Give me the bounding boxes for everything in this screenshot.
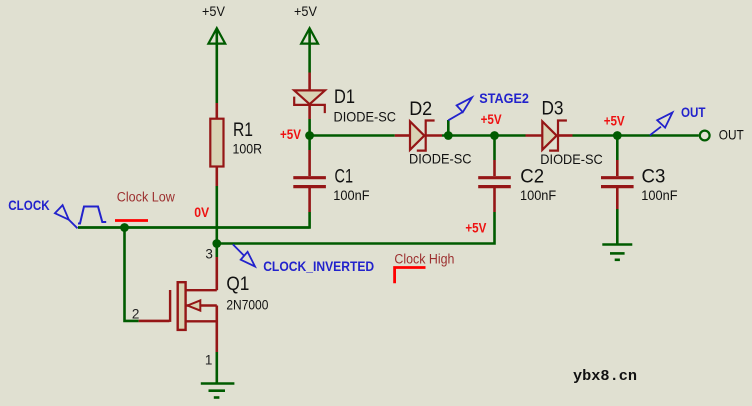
diode D3 body <box>542 121 556 149</box>
wire CLOCK horizontal <box>78 226 310 229</box>
diode D1 schottky cathode <box>294 97 325 114</box>
diode D2 schottky cathode <box>417 121 435 151</box>
wire source to ground <box>216 352 219 384</box>
capacitor C2 bottom pin <box>493 188 496 212</box>
wire D2 to stage2 node <box>442 134 495 137</box>
node CLOCK junction <box>120 223 129 232</box>
pin D2 anode <box>395 134 411 137</box>
capacitor C3 top pin wire <box>616 136 619 161</box>
node C3 top junction <box>613 131 622 140</box>
wire CLOCK down to gate <box>125 228 139 321</box>
resistor R1 <box>210 119 223 167</box>
Q1 source lead <box>186 320 217 322</box>
power +5V rail 2 arrow symbol <box>301 28 318 43</box>
capacitor C3 top pin <box>616 160 619 176</box>
svg-text:2: 2 <box>132 306 140 321</box>
svg-text:D2: D2 <box>409 99 432 120</box>
capacitor C2 top pin wire <box>493 136 496 161</box>
node STAGE2 junction <box>444 131 453 140</box>
svg-text:100nF: 100nF <box>641 187 677 203</box>
svg-text:+5V: +5V <box>280 126 302 142</box>
capacitor C2 top pin <box>493 160 496 176</box>
Q1 drain lead <box>186 289 217 291</box>
capacitor C1 top pin wire <box>308 136 311 151</box>
capacitor C3 bottom pin <box>616 188 619 209</box>
svg-text:+5V: +5V <box>481 111 503 127</box>
svg-text:ybx8.cn: ybx8.cn <box>573 368 637 385</box>
transistor Q1 <box>170 282 217 352</box>
svg-text:+5V: +5V <box>604 112 626 128</box>
ground under Q1 <box>201 384 235 398</box>
svg-text:3: 3 <box>205 246 213 261</box>
svg-text:+5V: +5V <box>294 4 317 19</box>
capacitor C2 plates <box>478 176 511 179</box>
pin R1 top <box>216 103 219 120</box>
wire node to D3 <box>495 134 526 137</box>
svg-text:Q1: Q1 <box>226 274 249 295</box>
ground under C3 <box>602 245 632 260</box>
waveform pulse symbol <box>78 207 106 224</box>
svg-text:0V: 0V <box>194 204 210 220</box>
svg-text:100R: 100R <box>233 140 263 156</box>
svg-text:STAGE2: STAGE2 <box>479 90 529 106</box>
svg-text:DIODE-SC: DIODE-SC <box>540 151 603 167</box>
wire power1 to R1 <box>216 30 219 103</box>
svg-text:C2: C2 <box>520 166 544 187</box>
svg-text:+5V: +5V <box>202 4 225 19</box>
pin D2 cathode <box>426 134 442 137</box>
svg-text:CLOCK_INVERTED: CLOCK_INVERTED <box>263 258 374 274</box>
node D1/C1 junction <box>305 131 314 140</box>
wire R1 to node 3 <box>216 186 219 244</box>
svg-text:C1: C1 <box>335 166 354 187</box>
svg-text:+5V: +5V <box>465 220 487 236</box>
svg-text:OUT: OUT <box>681 104 706 120</box>
svg-text:2N7000: 2N7000 <box>226 296 268 312</box>
pin R1 bottom <box>216 167 219 187</box>
power +5V rail 1 arrow symbol <box>208 28 225 43</box>
diode D3 schottky cathode <box>549 121 567 151</box>
svg-text:D3: D3 <box>542 99 564 120</box>
svg-text:OUT: OUT <box>719 127 744 143</box>
svg-text:DIODE-SC: DIODE-SC <box>334 109 397 125</box>
svg-text:Clock High: Clock High <box>394 251 454 266</box>
svg-text:100nF: 100nF <box>333 187 369 203</box>
svg-text:D1: D1 <box>334 87 355 108</box>
capacitor C1 plates <box>293 176 326 179</box>
svg-text:C3: C3 <box>642 166 666 187</box>
pin Q1 drain <box>216 257 219 290</box>
wire power2 to D1 <box>308 30 311 73</box>
pin D3 anode <box>526 134 543 137</box>
wire D1 to node <box>308 119 311 136</box>
svg-text:R1: R1 <box>233 120 253 141</box>
pin Q1 gate <box>139 320 170 323</box>
marker clock low level line <box>115 219 148 222</box>
pin D1 cathode <box>308 105 311 119</box>
Q1 gate bar <box>169 290 171 322</box>
node 3 junction <box>212 239 221 248</box>
capacitor C1 bottom pin <box>308 188 311 212</box>
capacitor C3 plates <box>601 176 634 179</box>
net arrow OUT <box>650 112 673 135</box>
Q1 channel bar <box>178 282 186 330</box>
svg-text:CLOCK: CLOCK <box>8 197 49 213</box>
net arrow CLOCK <box>55 205 78 228</box>
wire D3 to C3 node <box>573 134 699 137</box>
svg-text:1: 1 <box>205 353 213 368</box>
wire C2 bottom to node 3 <box>217 212 495 244</box>
wire node to D2 <box>310 134 395 137</box>
net arrow STAGE2 <box>448 97 472 120</box>
marker clock high level line <box>395 268 426 284</box>
wire node3 to drain <box>216 244 219 258</box>
Q1 body lead <box>186 304 217 306</box>
wire C1 bottom to clock line <box>78 212 310 228</box>
svg-text:100nF: 100nF <box>520 187 556 203</box>
svg-text:DIODE-SC: DIODE-SC <box>409 151 472 167</box>
pin D1 anode <box>308 73 311 92</box>
wire C3 to ground <box>616 209 619 244</box>
Q1 source down <box>216 306 219 353</box>
capacitor C1 top pin <box>308 150 311 176</box>
wire stub STAGE2 <box>447 120 450 136</box>
net arrow CLOCK_INVERTED <box>233 244 255 266</box>
diode D1 body <box>294 90 325 104</box>
svg-text:Clock Low: Clock Low <box>117 190 175 205</box>
node C2 top junction <box>490 131 499 140</box>
diode D2 body <box>410 121 424 149</box>
pin D3 cathode <box>558 134 573 137</box>
Q1 body arrow <box>188 300 201 310</box>
terminal OUT circle <box>700 131 710 141</box>
